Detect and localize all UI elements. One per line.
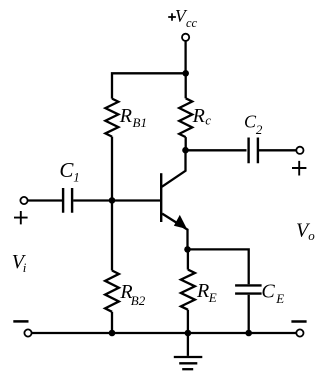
wire C2 to output	[259, 149, 296, 151]
label +Vcc	[168, 13, 176, 21]
wire top rail	[112, 73, 186, 98]
svg-text:E: E	[275, 291, 284, 306]
transistor Q1 collector diagonal	[162, 150, 186, 187]
terminal output bottom	[296, 329, 303, 336]
svg-text:E: E	[208, 290, 217, 305]
wire Vcc stub	[184, 41, 186, 73]
svg-text:cc: cc	[186, 16, 198, 30]
node junction top rail	[182, 70, 189, 77]
resistor Rc	[179, 98, 192, 137]
wire bottom rail	[32, 332, 296, 334]
wire CE bottom lead	[248, 295, 250, 333]
resistor RE	[181, 270, 195, 310]
terminal output top	[296, 147, 303, 154]
svg-text:C: C	[261, 281, 275, 303]
minus sign output	[291, 320, 306, 323]
terminal Vcc	[182, 34, 189, 41]
node junction base	[109, 197, 116, 204]
wire RE bottom lead	[187, 310, 189, 333]
node junction bottom CE	[245, 330, 252, 337]
svg-text:i: i	[23, 260, 27, 275]
wire RB2 bottom lead	[111, 312, 113, 333]
svg-text:c: c	[205, 113, 211, 128]
capacitor C1	[63, 188, 72, 213]
resistor RB2	[105, 271, 119, 312]
resistor RB1	[105, 99, 118, 137]
plus sign output	[292, 161, 306, 176]
wire emitter node to CE branch	[188, 249, 249, 284]
svg-text:2: 2	[256, 122, 263, 137]
svg-text:o: o	[308, 228, 315, 243]
node junction bottom left	[109, 330, 116, 337]
wire Rc bottom lead	[185, 137, 187, 150]
wire RB1 bottom lead	[111, 137, 113, 201]
capacitor CE	[235, 285, 262, 293]
plus sign input	[14, 211, 28, 224]
ground symbol	[174, 357, 203, 369]
svg-text:B1: B1	[133, 115, 147, 130]
node junction emitter	[184, 246, 191, 253]
wire RB2 top lead	[111, 200, 113, 270]
transistor Q1 base bar	[160, 173, 162, 222]
transistor Q1 emitter diagonal	[162, 214, 187, 250]
terminal input top	[20, 197, 27, 204]
svg-text:B2: B2	[131, 293, 146, 308]
node junction bottom RE	[185, 330, 192, 337]
wire C1 to base	[73, 199, 160, 201]
ground stub	[187, 333, 189, 356]
transistor Q1 emitter arrow	[174, 215, 187, 229]
capacitor C2	[249, 138, 258, 164]
wire Rc top lead	[185, 73, 187, 98]
svg-text:R: R	[192, 105, 205, 127]
svg-text:R: R	[119, 105, 132, 127]
node junction collector	[182, 147, 189, 154]
svg-text:1: 1	[73, 169, 80, 184]
wire RE top lead	[187, 249, 189, 269]
terminal input bottom	[24, 329, 31, 336]
svg-text:C: C	[59, 158, 74, 182]
wire input to C1	[28, 199, 62, 201]
wire collector to C2	[186, 149, 247, 151]
minus sign input	[13, 320, 28, 323]
svg-text:R: R	[196, 280, 209, 302]
